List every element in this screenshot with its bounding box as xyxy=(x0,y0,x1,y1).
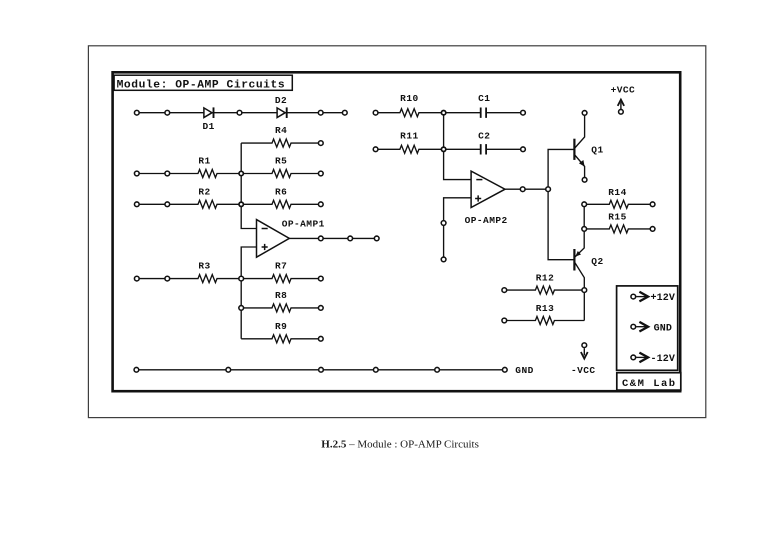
wire bus1 upper to inverting input xyxy=(241,143,256,228)
node terminal out2 xyxy=(520,187,525,192)
svg-text:C&M Lab: C&M Lab xyxy=(622,378,677,390)
svg-text:D2: D2 xyxy=(275,95,287,106)
node terminal bus1 R3 xyxy=(239,276,244,281)
node terminal diode row x136 xyxy=(134,110,139,115)
svg-text:C2: C2 xyxy=(478,131,490,142)
junction bus1 R1 xyxy=(239,171,243,175)
transistor Q2 xyxy=(574,229,584,290)
node terminal plus2 b xyxy=(441,257,446,262)
node terminal Q1 emitter xyxy=(582,177,587,182)
svg-text:OP-AMP1: OP-AMP1 xyxy=(282,219,325,230)
label box C&M Lab xyxy=(617,373,681,391)
svg-text:GND: GND xyxy=(654,323,672,334)
svg-text:R12: R12 xyxy=(536,273,554,284)
node terminal diode row x167 xyxy=(165,110,170,115)
wire row R3 left xyxy=(137,278,168,280)
node terminal R3 a xyxy=(134,276,139,281)
node terminal out1 x350 xyxy=(348,236,353,241)
svg-text:-VCC: -VCC xyxy=(571,365,596,376)
svg-text:R11: R11 xyxy=(400,131,418,142)
node terminal R10 left xyxy=(373,110,378,115)
resistor R2 xyxy=(167,200,241,208)
node terminal diode row x320 xyxy=(318,110,323,115)
svg-text:R4: R4 xyxy=(275,125,287,136)
svg-text:Q2: Q2 xyxy=(591,256,603,267)
junction bus2 R10 xyxy=(441,111,445,115)
node terminal R14 right xyxy=(650,202,655,207)
resistor R14 xyxy=(584,200,652,208)
wire op-amp1 output xyxy=(289,237,376,239)
svg-text:Module: OP-AMP Circuits: Module: OP-AMP Circuits xyxy=(117,79,286,91)
wire bus3 Q1 base / Q2 base xyxy=(548,149,574,259)
node terminal out2 junction xyxy=(546,187,551,192)
title box xyxy=(114,75,292,90)
node terminal R1 b xyxy=(165,171,170,176)
resistor R11 xyxy=(376,145,444,153)
wire bus2 to inverting input op-amp2 xyxy=(444,113,472,180)
node terminal R6 right xyxy=(318,202,323,207)
resistor R3 xyxy=(167,275,241,283)
wire diode row xyxy=(137,112,345,114)
wire row R2 left xyxy=(137,203,168,205)
node terminal R1 a xyxy=(134,171,139,176)
node terminal R2 a xyxy=(134,202,139,207)
node terminal R13 left xyxy=(502,318,507,323)
power terminal -12V xyxy=(631,353,675,365)
wire R14-R15 vertical xyxy=(583,204,585,229)
node terminal R12 junction xyxy=(582,288,587,293)
power connector box xyxy=(617,286,678,370)
node terminal R7 right xyxy=(318,276,323,281)
svg-text:C1: C1 xyxy=(478,93,490,104)
svg-text:R13: R13 xyxy=(536,303,554,314)
resistor R5 xyxy=(241,170,321,178)
diode D2 xyxy=(277,107,287,118)
node terminal gnd x321 xyxy=(319,367,324,372)
wire bus1 lower from non-inverting input xyxy=(241,247,256,339)
svg-text:+12V: +12V xyxy=(650,293,675,304)
svg-text:H.2.5 – Module : OP-AMP Circui: H.2.5 – Module : OP-AMP Circuits xyxy=(321,439,479,451)
resistor R8 xyxy=(241,304,321,312)
power terminal +12V xyxy=(631,292,675,304)
resistor R10 xyxy=(376,109,444,117)
node terminal plus2 a xyxy=(441,221,446,226)
node terminal R15 right xyxy=(650,227,655,232)
svg-text:OP-AMP2: OP-AMP2 xyxy=(465,215,508,226)
node terminal R12 left xyxy=(502,288,507,293)
svg-text:+VCC: +VCC xyxy=(611,85,636,96)
node terminal gnd x375 xyxy=(373,367,378,372)
resistor R12 xyxy=(504,286,584,294)
svg-text:R14: R14 xyxy=(608,187,626,198)
wire row R1 left xyxy=(137,173,168,175)
svg-text:R8: R8 xyxy=(275,290,287,301)
resistor R9 xyxy=(241,335,321,343)
node terminal gnd x437 xyxy=(435,367,440,372)
svg-text:R5: R5 xyxy=(275,156,287,167)
wire op-amp2 output xyxy=(505,188,548,190)
power +VCC symbol xyxy=(618,100,624,115)
node terminal R11 left xyxy=(373,147,378,152)
wire R12-R13 vertical xyxy=(583,290,585,320)
wire non-inverting input op-amp2 down xyxy=(444,198,472,260)
node terminal R15 left xyxy=(582,227,587,232)
resistor R1 xyxy=(167,170,241,178)
capacitor C1 xyxy=(444,108,523,118)
node terminal R3 b xyxy=(165,276,170,281)
junction bus1 R2 xyxy=(239,202,243,206)
junction bus2 R11 xyxy=(441,147,445,151)
capacitor C2 xyxy=(444,144,523,154)
node terminal R5 right xyxy=(318,171,323,176)
diode D1 xyxy=(204,107,214,118)
svg-text:R1: R1 xyxy=(198,156,210,167)
node terminal out1 x376 xyxy=(374,236,379,241)
node terminal gnd x136 xyxy=(134,367,139,372)
node terminal C1 right xyxy=(521,110,526,115)
power terminal GND xyxy=(631,322,672,334)
resistor R7 xyxy=(241,275,321,283)
svg-text:R15: R15 xyxy=(608,211,626,222)
resistor R15 xyxy=(584,225,652,233)
node terminal R2 b xyxy=(165,202,170,207)
schematic border xyxy=(113,72,681,391)
svg-text:D1: D1 xyxy=(203,121,215,132)
node terminal R8 right xyxy=(318,306,323,311)
resistor R6 xyxy=(241,200,321,208)
node terminal R9 right xyxy=(318,336,323,341)
svg-text:GND: GND xyxy=(515,365,533,376)
node terminal gnd x228 xyxy=(226,367,231,372)
node terminal bus1 R8 xyxy=(239,306,244,311)
outer page border xyxy=(88,46,705,418)
node terminal C2 right xyxy=(521,147,526,152)
node terminal out1 x320 xyxy=(318,236,323,241)
svg-text:R6: R6 xyxy=(275,186,287,197)
svg-text:R10: R10 xyxy=(400,93,418,104)
svg-text:R9: R9 xyxy=(275,321,287,332)
svg-text:R7: R7 xyxy=(275,261,287,272)
node terminal Q1 collector xyxy=(582,111,587,116)
wire ground bus xyxy=(136,369,504,371)
node terminal diode row x239 xyxy=(237,110,242,115)
node terminal diode row x344 xyxy=(342,110,347,115)
transistor Q1 xyxy=(574,113,584,180)
resistor R4 xyxy=(241,139,321,147)
node terminal gnd x504 xyxy=(502,367,507,372)
node terminal R4 right xyxy=(318,141,323,146)
power -VCC symbol xyxy=(581,343,588,359)
svg-text:-12V: -12V xyxy=(650,354,675,365)
svg-text:R3: R3 xyxy=(198,261,210,272)
op-amp U2 OP-AMP2 xyxy=(471,171,505,207)
svg-text:R2: R2 xyxy=(198,186,210,197)
resistor R13 xyxy=(504,317,584,325)
node terminal R14 left xyxy=(582,202,587,207)
svg-text:Q1: Q1 xyxy=(591,145,603,156)
op-amp U1 OP-AMP1 xyxy=(257,220,290,258)
